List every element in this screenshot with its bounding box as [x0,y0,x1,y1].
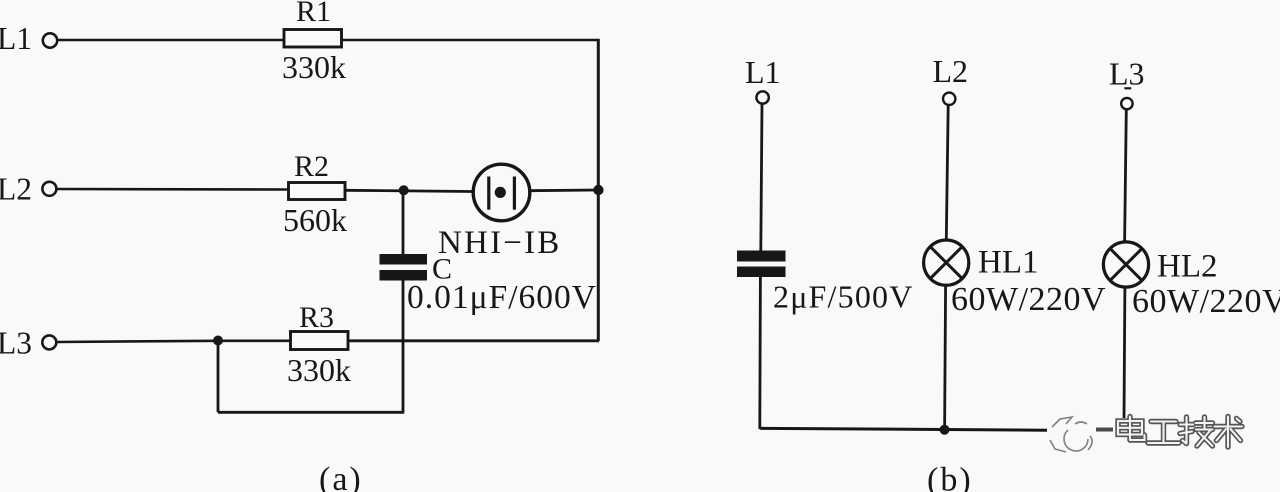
terminal L2 (a) [42,182,56,196]
capacitor C plates [380,254,428,281]
svg-text:R1: R1 [296,0,331,28]
svg-text:L2: L2 [933,53,969,89]
svg-text:NHI−IB: NHI−IB [438,225,561,261]
svg-text:HL2: HL2 [1157,249,1218,285]
terminal L3 (a) [42,335,56,349]
svg-text:60W/220V: 60W/220V [1132,283,1280,320]
svg-text:L2: L2 [0,172,32,207]
bottom bus wire (b) [760,428,1047,430]
wire L1 to R1 [57,39,284,42]
wire R3 to right bus [348,339,599,342]
junction dot bottom bus [940,425,950,435]
wire junction to capacitor C [402,190,405,255]
wire HL2 down to watermark [1123,287,1127,418]
lamp HL2 [1103,242,1148,287]
svg-text:2μF/500V: 2μF/500V [773,279,914,315]
watermark text core pass [1118,417,1242,448]
svg-text:560k: 560k [283,202,347,238]
watermark logo [1050,417,1092,452]
terminal L3 (b) [1121,98,1132,109]
wire capacitor C down to bypass [402,280,405,413]
terminal L2 (b) [943,93,955,105]
wire bypass down from L3 junction [217,341,220,413]
svg-text:R3: R3 [299,301,334,334]
svg-text:(b): (b) [927,462,973,492]
svg-text:60W/220V: 60W/220V [951,281,1106,318]
wire capacitor down to bottom bus [758,277,761,429]
svg-text:(a): (a) [319,461,363,492]
wire R2 to lamp [345,190,472,191]
wire L3 to junction [57,341,219,342]
watermark text outline pass [1118,417,1242,448]
neon lamp NHI-IB [473,164,530,221]
junction dot L3 tap [213,336,223,346]
resistor R3 [291,332,349,350]
junction dot at capacitor tap [399,185,409,195]
terminal L1 (a) [43,33,57,47]
wire lamp to right bus [530,189,598,192]
svg-text:HL1: HL1 [978,245,1039,281]
wire L2 (b) down to HL1 [946,105,948,239]
capacitor 2uF plates [737,251,786,278]
junction dot right bus / lamp [593,185,603,195]
wire right bus vertical [597,39,600,341]
svg-text:330k: 330k [282,49,346,85]
terminal L1 (b) [756,91,768,103]
watermark dash [1096,428,1113,432]
svg-text:330k: 330k [287,352,351,388]
wire L3 (b) down to HL2 [1125,109,1127,242]
tick under L3 [1124,87,1131,89]
svg-text:L3: L3 [0,326,32,361]
svg-text:L1: L1 [0,21,32,56]
svg-text:L3: L3 [1109,56,1145,92]
wire bypass horizontal [218,411,404,414]
svg-text:0.01μF/600V: 0.01μF/600V [407,279,597,316]
wire R1 to right bus [342,39,599,42]
lamp HL1 [924,240,969,285]
svg-text:L1: L1 [745,54,781,90]
svg-text:R2: R2 [294,150,329,183]
wire HL1 down to bottom bus [945,286,946,430]
wire junction to R3 [218,339,291,342]
resistor R2 [289,183,346,200]
wire L2 to R2 [57,188,289,191]
resistor R1 [284,30,342,48]
wire L1 (b) down to capacitor [761,104,762,251]
